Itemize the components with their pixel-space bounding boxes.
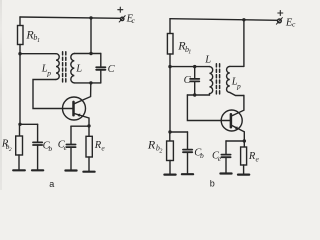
svg-text:e: e xyxy=(256,155,260,164)
svg-text:1: 1 xyxy=(188,49,191,55)
svg-text:L: L xyxy=(204,55,211,66)
svg-text:e: e xyxy=(101,144,105,153)
svg-text:R: R xyxy=(147,137,156,151)
svg-text:c: c xyxy=(292,20,296,29)
svg-text:C: C xyxy=(108,64,116,75)
svg-text:b: b xyxy=(48,144,52,153)
svg-text:p: p xyxy=(46,69,51,78)
svg-text:L: L xyxy=(75,63,82,74)
svg-text:b: b xyxy=(200,151,204,160)
svg-text:c: c xyxy=(132,16,136,25)
svg-text:b: b xyxy=(210,179,215,189)
svg-text:2: 2 xyxy=(9,147,12,153)
svg-text:2: 2 xyxy=(159,149,162,155)
svg-text:C: C xyxy=(184,75,192,86)
svg-text:a: a xyxy=(49,179,54,189)
svg-text:p: p xyxy=(236,81,241,90)
svg-text:1: 1 xyxy=(37,38,40,44)
